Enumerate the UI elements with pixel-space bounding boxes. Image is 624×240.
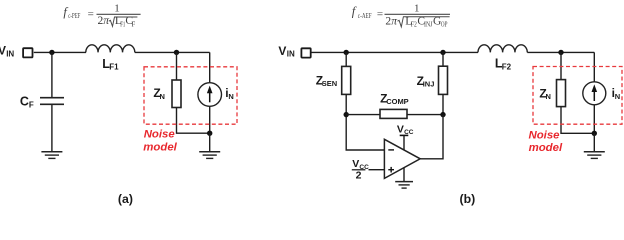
- svg-text:c-PEF: c-PEF: [68, 12, 80, 20]
- port VIN (b): [301, 48, 310, 57]
- wire ZN bottom to node B6: [561, 107, 594, 134]
- svg-text:model: model: [529, 142, 563, 154]
- wire corner down to current source (b): [593, 52, 595, 82]
- resistor ZCOMP: [380, 109, 407, 118]
- inductor LF1: [86, 45, 135, 53]
- svg-text:N: N: [160, 92, 165, 101]
- wire VCC/2 to plus input: [369, 169, 385, 171]
- wire node B6 to ground: [593, 133, 595, 151]
- wire node B2 to ZCOMP: [346, 114, 380, 116]
- noise model text (a): [143, 129, 177, 154]
- label LF1: [102, 57, 119, 72]
- ground under CF: [41, 152, 62, 159]
- ground under noise model (a): [199, 152, 220, 159]
- svg-text:OP: OP: [441, 20, 448, 28]
- svg-text:IN: IN: [6, 49, 14, 58]
- noise model text (b): [529, 129, 563, 154]
- svg-text:V: V: [397, 124, 404, 136]
- svg-text:V: V: [278, 44, 286, 58]
- svg-text:V: V: [0, 44, 6, 58]
- noise model dashed box (a): [144, 67, 237, 124]
- svg-text:Noise: Noise: [144, 129, 176, 141]
- op-amp output wire to node B3: [420, 115, 443, 159]
- wire ZINJ bottom to node B3: [442, 94, 444, 114]
- resistor ZINJ: [439, 66, 448, 94]
- svg-text:1: 1: [414, 3, 420, 15]
- wire CF to ground: [51, 105, 53, 151]
- formula f_c-PEF = 1/(2*pi*sqrt(LF1*CF)): [63, 3, 140, 29]
- current source iN (b): [583, 82, 606, 105]
- op-amp minus sign: [388, 149, 394, 151]
- node B5: [558, 50, 563, 55]
- node B3: [440, 112, 445, 117]
- current source iN (a): [198, 83, 222, 107]
- label iN (b): [612, 86, 621, 101]
- wire node B1 to ZSEN: [345, 52, 347, 66]
- wire inductor to corner (b): [527, 51, 594, 53]
- label ZCOMP: [380, 91, 409, 106]
- op-amp U1: [384, 139, 420, 178]
- label ZN (a): [153, 86, 165, 101]
- wire current source to node A3: [209, 106, 211, 133]
- node A2: [174, 50, 179, 55]
- svg-text:SEN: SEN: [322, 79, 337, 88]
- svg-text:=: =: [377, 8, 383, 20]
- svg-text:INJ: INJ: [423, 80, 435, 89]
- label VCC/2 fraction: [352, 158, 369, 181]
- resistor ZSEN: [342, 66, 351, 94]
- label VCC: [397, 124, 414, 137]
- svg-text:CC: CC: [404, 129, 414, 136]
- svg-text:INJ: INJ: [424, 20, 433, 28]
- wire node A3 to ground: [209, 133, 211, 151]
- svg-text:F2: F2: [411, 20, 417, 28]
- label ZN (b): [539, 86, 551, 101]
- svg-text:1: 1: [114, 3, 120, 15]
- node B2: [344, 112, 349, 117]
- svg-text:V: V: [352, 158, 359, 170]
- svg-text:(b): (b): [460, 192, 476, 206]
- svg-text:F: F: [131, 20, 135, 28]
- label VIN (b): [278, 44, 295, 59]
- label ZINJ: [417, 74, 435, 89]
- VCC supply bar and stem: [400, 135, 409, 150]
- wire corner down to current source (a): [209, 52, 211, 82]
- wire port to inductor (b): [311, 51, 478, 53]
- label LF2: [495, 57, 512, 72]
- svg-text:N: N: [228, 92, 233, 101]
- inductor LF2: [478, 45, 527, 53]
- svg-text:COMP: COMP: [386, 97, 409, 106]
- svg-text:C: C: [20, 95, 29, 109]
- wire inductor to corner (a): [135, 51, 210, 53]
- wire node B4 to ZINJ: [442, 52, 444, 66]
- wire ZSEN bottom down to minus level: [346, 94, 384, 150]
- svg-text:F: F: [29, 100, 34, 109]
- node A3: [207, 131, 212, 136]
- label iN (a): [225, 86, 234, 101]
- svg-text:(a): (a): [118, 192, 133, 206]
- op-amp ground: [395, 168, 413, 189]
- svg-text:=: =: [88, 8, 94, 20]
- svg-text:model: model: [143, 142, 177, 154]
- wire node B5 to ZN (b): [560, 52, 562, 79]
- svg-text:c-AEF: c-AEF: [358, 12, 372, 20]
- node B6: [592, 131, 597, 136]
- wire current source to node B6: [593, 105, 595, 134]
- svg-text:N: N: [546, 92, 551, 101]
- wire ZN bottom to node A3: [177, 108, 210, 134]
- label ZSEN: [316, 73, 338, 88]
- label CF: [20, 95, 34, 110]
- wire node A2 to ZN (a): [176, 52, 178, 80]
- formula f_c-AEF = 1/(2*pi*sqrt(LF2*CINJ*GOP)): [352, 3, 450, 29]
- wire port to inductor (a): [34, 51, 86, 53]
- svg-text:IN: IN: [287, 50, 295, 59]
- resistor ZN (a): [172, 80, 181, 108]
- svg-text:F2: F2: [502, 62, 512, 71]
- svg-text:Noise: Noise: [529, 129, 561, 141]
- node B1: [344, 50, 349, 55]
- wire node to CF: [51, 52, 53, 97]
- noise model dashed box (b): [533, 67, 622, 125]
- capacitor CF: [40, 98, 64, 105]
- port VIN (a): [23, 48, 32, 57]
- ground under noise model (b): [584, 152, 605, 159]
- node B4: [440, 50, 445, 55]
- svg-text:N: N: [615, 92, 620, 101]
- node A1: [49, 50, 54, 55]
- svg-text:2: 2: [356, 170, 362, 182]
- label VIN (a): [0, 44, 14, 59]
- wire ZCOMP to node B3: [407, 114, 443, 116]
- resistor ZN (b): [557, 80, 566, 107]
- svg-text:F1: F1: [109, 63, 119, 72]
- op-amp plus sign: [388, 167, 394, 173]
